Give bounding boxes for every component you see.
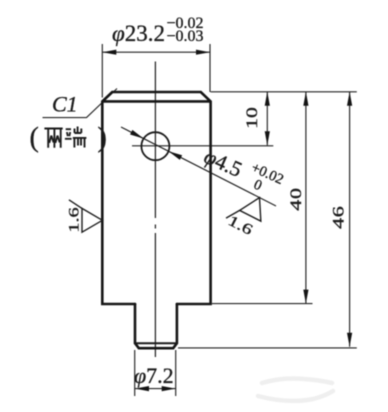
- svg-text:40: 40: [288, 187, 305, 210]
- svg-text:C1: C1: [52, 92, 78, 117]
- svg-text:1.6: 1.6: [65, 207, 82, 232]
- svg-text:10: 10: [244, 107, 261, 129]
- svg-text:φ7.2: φ7.2: [134, 363, 174, 388]
- svg-text:): ): [98, 123, 107, 154]
- svg-text:46: 46: [330, 205, 347, 228]
- svg-text:−0.03: −0.03: [167, 28, 204, 45]
- svg-text:φ23.2: φ23.2: [112, 21, 165, 46]
- svg-text:(: (: [30, 123, 39, 154]
